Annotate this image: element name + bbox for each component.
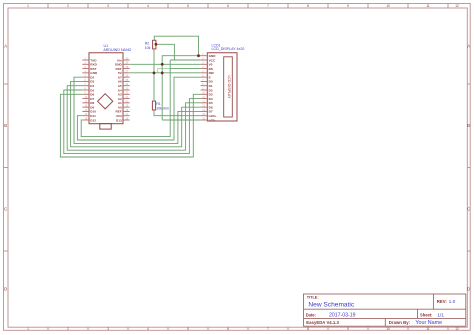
svg-text:9: 9 bbox=[347, 327, 349, 331]
border column numbers top bbox=[27, 4, 459, 8]
wire R2 top to LCD GND loop bbox=[154, 36, 198, 56]
wire R2 bottom to R1 top bbox=[153, 49, 155, 101]
svg-text:D: D bbox=[467, 286, 470, 291]
wire LCD GND pin stub link bbox=[199, 55, 201, 57]
svg-text:TITLE:: TITLE: bbox=[307, 296, 319, 300]
svg-text:2: 2 bbox=[67, 327, 69, 331]
svg-text:1.0: 1.0 bbox=[449, 299, 456, 305]
svg-text:4: 4 bbox=[147, 327, 149, 331]
svg-text:A: A bbox=[467, 43, 470, 48]
wire D4 to LCD D5 loop bbox=[67, 86, 200, 150]
svg-text:LCD_DISPLAY 4x20: LCD_DISPLAY 4x20 bbox=[212, 47, 245, 51]
wire D6 to LCD D3 loop bbox=[60, 94, 200, 157]
svg-text:Sheet:: Sheet: bbox=[420, 312, 433, 317]
svg-text:B: B bbox=[4, 123, 7, 128]
svg-text:B: B bbox=[467, 123, 470, 128]
resistor R2 body bbox=[153, 40, 156, 49]
LCD1 pin numbers bbox=[202, 53, 205, 120]
svg-text:8: 8 bbox=[307, 4, 309, 8]
svg-text:ARDUINO NANO: ARDUINO NANO bbox=[103, 48, 131, 52]
svg-text:R2: R2 bbox=[145, 41, 150, 45]
svg-text:3: 3 bbox=[107, 4, 109, 8]
svg-text:A: A bbox=[4, 43, 7, 48]
wire D2 to LCD D7 loop bbox=[74, 77, 201, 143]
svg-text:6: 6 bbox=[227, 327, 229, 331]
U1 right pin numbers bbox=[126, 57, 129, 120]
svg-text:9: 9 bbox=[347, 4, 349, 8]
svg-text:5: 5 bbox=[187, 4, 189, 8]
svg-text:R1: R1 bbox=[156, 102, 161, 106]
wire D5 to LCD D4 loop bbox=[64, 90, 201, 154]
border row ticks left bbox=[4, 84, 9, 251]
svg-text:1/1: 1/1 bbox=[437, 312, 444, 318]
svg-text:LED-: LED- bbox=[209, 118, 216, 122]
border column ticks top bbox=[48, 4, 448, 9]
U1 diamond decoration bbox=[98, 94, 113, 109]
LCD1 pin names bbox=[209, 54, 217, 122]
wire R2 side tap bbox=[156, 44, 175, 60]
svg-text:Drawn By:: Drawn By: bbox=[389, 320, 411, 325]
U1 right pin names bbox=[115, 58, 123, 122]
resistor R1 body bbox=[152, 101, 155, 110]
border row ticks right bbox=[467, 84, 470, 251]
svg-text:8: 8 bbox=[307, 327, 309, 331]
lcd LCD1 body bbox=[207, 53, 237, 121]
wire D11 to LCD E loop bbox=[77, 77, 200, 140]
svg-text:1: 1 bbox=[27, 4, 29, 8]
svg-text:2017-03-19: 2017-03-19 bbox=[329, 312, 356, 318]
wire VCC to RS column link bbox=[169, 60, 171, 69]
border column ticks bottom bbox=[48, 327, 448, 330]
svg-text:11: 11 bbox=[426, 4, 430, 8]
svg-text:EasyEDA V4.1.3: EasyEDA V4.1.3 bbox=[306, 320, 339, 325]
wire VCC row to LCD VCC bbox=[170, 59, 200, 61]
svg-text:2: 2 bbox=[67, 4, 69, 8]
svg-text:4: 4 bbox=[147, 4, 149, 8]
junction dot LCD GND node bbox=[197, 54, 200, 57]
wire R1 bottom to LCD LED+ bbox=[154, 110, 201, 116]
svg-text:C: C bbox=[4, 207, 7, 212]
svg-text:D12: D12 bbox=[90, 118, 96, 122]
svg-text:5: 5 bbox=[187, 327, 189, 331]
wire D3 to LCD D6 loop bbox=[71, 81, 201, 146]
border row letters right bbox=[467, 43, 470, 291]
svg-text:D13: D13 bbox=[116, 118, 122, 122]
svg-text:REV:: REV: bbox=[437, 299, 448, 304]
U1 left pins bbox=[82, 60, 89, 120]
svg-text:3: 3 bbox=[107, 327, 109, 331]
svg-text:C: C bbox=[467, 207, 470, 212]
svg-text:1: 1 bbox=[27, 327, 29, 331]
wire arduino 5V to LCD RW bbox=[130, 72, 201, 74]
junction dot GND-V0 node bbox=[161, 63, 164, 66]
wire D12 to LCD RS loop bbox=[81, 69, 200, 137]
svg-text:Date:: Date: bbox=[306, 312, 316, 317]
title block frame bbox=[304, 294, 466, 326]
svg-text:10: 10 bbox=[386, 4, 390, 8]
wire GND net vertical with LCD GND branch bbox=[162, 56, 198, 120]
wire arduino GND to LCD V0 bbox=[130, 63, 201, 65]
svg-text:D: D bbox=[4, 286, 7, 291]
svg-text:10: 10 bbox=[386, 327, 390, 331]
junction dot 5V-RW node bbox=[161, 71, 164, 74]
svg-text:7: 7 bbox=[267, 4, 269, 8]
U1 left pin numbers bbox=[85, 57, 88, 120]
LCD1 pins bbox=[201, 56, 208, 120]
border column numbers bottom bbox=[27, 327, 459, 331]
op U1 body bbox=[89, 53, 123, 124]
junction dot R divider 5V node bbox=[153, 71, 156, 74]
svg-text:Your Name: Your Name bbox=[415, 320, 442, 326]
svg-text:6: 6 bbox=[227, 4, 229, 8]
wire LED- to LCD bbox=[162, 119, 200, 121]
junction dot R2 tap bbox=[155, 43, 158, 46]
svg-text:10k: 10k bbox=[145, 46, 151, 50]
svg-text:LCD DISPLAY: LCD DISPLAY bbox=[227, 75, 231, 99]
U1 usb connector box bbox=[100, 124, 111, 130]
svg-text:12: 12 bbox=[455, 4, 459, 8]
U1 left pin names bbox=[90, 58, 98, 122]
svg-text:11: 11 bbox=[426, 327, 430, 331]
U1 right pins bbox=[123, 60, 130, 120]
svg-text:7: 7 bbox=[267, 327, 269, 331]
border row letters left bbox=[4, 43, 7, 291]
LCD1 screen inner box bbox=[224, 57, 233, 117]
svg-text:12: 12 bbox=[455, 327, 459, 331]
svg-text:New Schematic: New Schematic bbox=[308, 301, 355, 308]
wire RS row left stub bbox=[158, 69, 171, 73]
